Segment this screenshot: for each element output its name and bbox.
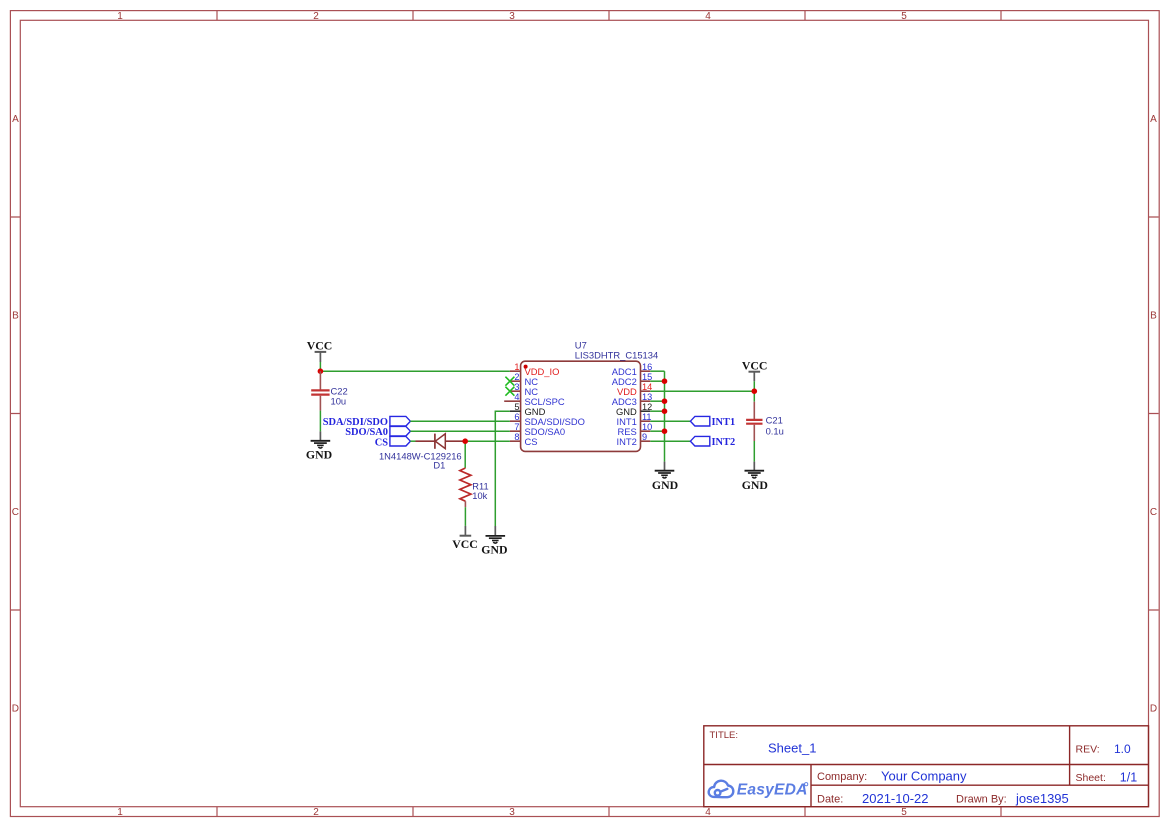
svg-text:Drawn By:: Drawn By:: [956, 794, 1007, 806]
svg-text:EasyEDA: EasyEDA: [737, 781, 808, 798]
svg-text:VCC: VCC: [742, 359, 768, 373]
svg-text:10u: 10u: [331, 395, 347, 406]
svg-text:3: 3: [509, 11, 515, 22]
svg-text:12: 12: [642, 402, 652, 412]
pin numbers left: [514, 362, 519, 442]
svg-text:INT2: INT2: [712, 437, 736, 448]
svg-text:C: C: [1150, 507, 1157, 518]
svg-text:GND: GND: [742, 478, 768, 492]
svg-text:10k: 10k: [472, 491, 487, 501]
svg-text:INT1: INT1: [712, 417, 736, 428]
net flag SDA/SDI/SDO: [323, 416, 411, 428]
svg-text:A: A: [12, 114, 19, 125]
diode D1: [416, 434, 466, 449]
wire R11 to VCC (bottom): [464, 507, 466, 526]
svg-text:C21: C21: [766, 414, 783, 425]
label 1N4148W-C129216 D1: [379, 450, 462, 470]
ground GND (bus): [652, 462, 678, 492]
wire junction down to R11: [464, 441, 466, 468]
label C22 10u: [331, 385, 348, 406]
svg-text:GND: GND: [481, 543, 507, 557]
pin names right: [612, 366, 637, 447]
pin stubs right: [641, 371, 651, 441]
junction bus pin 15: [662, 378, 668, 384]
svg-text:B: B: [1150, 311, 1157, 322]
ground GND (C22): [306, 431, 332, 461]
svg-text:8: 8: [514, 432, 519, 442]
pin numbers right: [642, 362, 652, 442]
wire pin 12 to bus: [650, 410, 664, 412]
svg-text:2021-10-22: 2021-10-22: [862, 791, 929, 806]
wire VCC stub to node: [319, 362, 321, 371]
label R11 10k: [472, 482, 488, 501]
svg-text:CS: CS: [375, 437, 389, 448]
svg-text:LIS3DHTR_C15134: LIS3DHTR_C15134: [575, 349, 658, 360]
net flag INT1: [690, 416, 735, 428]
svg-text:15: 15: [642, 372, 652, 382]
wire C21 to GND: [753, 441, 755, 462]
junction bus pin 12: [662, 408, 668, 414]
svg-text:3: 3: [509, 807, 515, 818]
NC cross pin 3: [505, 387, 514, 396]
ground GND (C21): [742, 462, 768, 492]
svg-text:5: 5: [514, 402, 519, 412]
svg-text:4: 4: [705, 807, 711, 818]
wire pin 16 to bus: [650, 370, 664, 372]
svg-text:16: 16: [642, 362, 652, 372]
wire pin 11 to INT1 flag: [650, 420, 690, 422]
junction VDD / VCC / C21: [752, 388, 758, 394]
power flag VCC (bottom, below R11): [452, 526, 478, 551]
svg-text:2: 2: [313, 11, 319, 22]
ground GND (pin 5): [481, 526, 507, 557]
svg-text:A: A: [1150, 114, 1157, 125]
svg-text:Sheet:: Sheet:: [1076, 772, 1106, 784]
svg-text:Date:: Date:: [817, 794, 843, 806]
wire pin 5 to GND (bottom centre): [495, 411, 510, 526]
IC U7 LIS3DHTR_C15134: [504, 339, 658, 451]
wire pin 13 to bus: [650, 400, 664, 402]
svg-text:1: 1: [117, 11, 123, 22]
wire SDO/SA0 to pin 7: [410, 430, 510, 432]
pin stubs left: [504, 371, 520, 441]
wire pin 14 VDD to VCC node: [650, 390, 754, 392]
svg-text:D: D: [12, 704, 19, 715]
power flag VCC (right, above C21): [742, 359, 768, 382]
pin names left: [525, 366, 585, 447]
pin 1 marker dot: [524, 365, 528, 369]
title text: [710, 730, 1138, 806]
capacitor C22: [311, 371, 329, 410]
NC cross pin 2: [505, 377, 514, 386]
svg-text:10: 10: [642, 422, 652, 432]
svg-text:6: 6: [514, 412, 519, 422]
svg-text:VCC: VCC: [307, 339, 333, 353]
wire node to IC pin 1: [320, 370, 510, 372]
wire junction to pin 8: [465, 440, 510, 442]
TITLE BLOCK: [704, 726, 1149, 807]
svg-text:1: 1: [514, 362, 519, 372]
wire node to C21: [753, 391, 755, 402]
svg-text:GND: GND: [306, 447, 332, 461]
wire VCC stub to node (right): [753, 381, 755, 391]
svg-text:2: 2: [514, 372, 519, 382]
svg-text:5: 5: [901, 11, 907, 22]
power flag VCC (left, above C22): [307, 339, 333, 362]
svg-text:REV:: REV:: [1076, 744, 1100, 756]
wire pin 15 to bus: [650, 380, 664, 382]
svg-text:jose1395: jose1395: [1015, 791, 1069, 806]
svg-text:13: 13: [642, 392, 652, 402]
wire SDA/SDI/SDO to pin 6: [410, 420, 510, 422]
svg-text:Your Company: Your Company: [881, 768, 967, 783]
svg-text:INT2: INT2: [616, 436, 636, 447]
net flag SDO/SA0: [345, 426, 410, 438]
net flag CS: [375, 436, 411, 448]
wire C22 to GND: [319, 411, 321, 432]
junction bus pin 10: [662, 428, 668, 434]
label C21 0.1u: [766, 414, 784, 436]
svg-text:Sheet_1: Sheet_1: [768, 741, 816, 756]
svg-text:14: 14: [642, 382, 652, 392]
svg-text:0.1u: 0.1u: [766, 425, 784, 436]
junction VCC / C22 / pin 1: [318, 368, 324, 374]
svg-text:3: 3: [514, 382, 519, 392]
svg-text:1: 1: [117, 807, 123, 818]
svg-text:VCC: VCC: [452, 537, 478, 551]
svg-text:4: 4: [514, 392, 519, 402]
capacitor C21: [746, 402, 762, 441]
svg-text:7: 7: [514, 422, 519, 432]
wire pin 9 to INT2 flag: [650, 440, 690, 442]
svg-text:2: 2: [313, 807, 319, 818]
svg-text:9: 9: [642, 432, 647, 442]
svg-text:5: 5: [901, 807, 907, 818]
svg-text:D1: D1: [433, 460, 445, 471]
svg-text:CS: CS: [525, 436, 538, 447]
svg-text:11: 11: [642, 412, 652, 422]
EasyEDA logo: [709, 781, 808, 799]
svg-text:GND: GND: [652, 478, 678, 492]
svg-text:1/1: 1/1: [1120, 770, 1137, 784]
svg-text:1.0: 1.0: [1114, 742, 1131, 756]
bus vertical wire to GND: [664, 371, 666, 461]
svg-text:D: D: [1150, 704, 1157, 715]
svg-text:4: 4: [705, 11, 711, 22]
net flag INT2: [690, 436, 735, 448]
junction D1 / R11 / pin 8: [462, 438, 468, 444]
svg-text:B: B: [12, 311, 19, 322]
junction bus pin 13: [662, 398, 668, 404]
wire CS flag to diode D1: [410, 440, 415, 442]
wire pin 10 to bus: [650, 430, 664, 432]
resistor R11: [460, 468, 471, 507]
svg-text:Company:: Company:: [817, 771, 867, 783]
svg-text:1N4148W-C129216: 1N4148W-C129216: [379, 450, 462, 461]
svg-text:C: C: [12, 507, 19, 518]
svg-text:TITLE:: TITLE:: [710, 730, 739, 741]
